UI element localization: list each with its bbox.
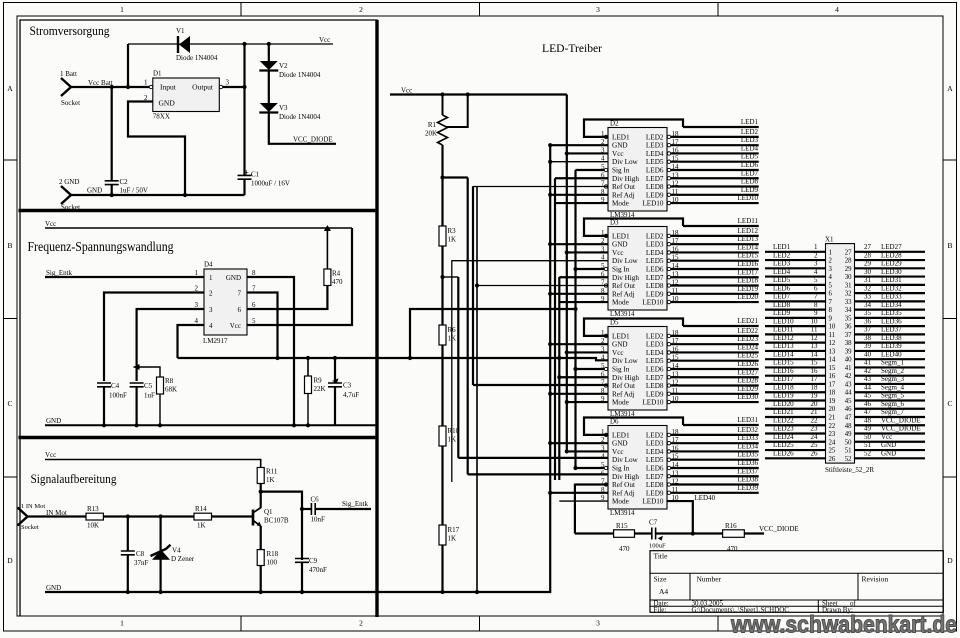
svg-text:41: 41: [864, 359, 872, 367]
svg-text:3: 3: [829, 266, 833, 273]
svg-text:Vcc: Vcc: [612, 349, 624, 357]
svg-text:5: 5: [814, 276, 818, 284]
svg-text:LED13: LED13: [773, 342, 794, 350]
diode V1 1N4004: [177, 36, 179, 53]
svg-text:38: 38: [845, 340, 852, 347]
wire R6 to R10: [441, 345, 443, 426]
wire C7 to R16: [656, 532, 723, 534]
svg-text:LED12: LED12: [773, 334, 794, 342]
svg-text:D2: D2: [610, 120, 619, 128]
X1 pin 46 wire: [855, 408, 926, 410]
resistor R9 22K: [307, 358, 309, 376]
svg-text:32: 32: [864, 284, 872, 292]
svg-text:LED10: LED10: [773, 317, 794, 325]
svg-text:2: 2: [814, 251, 818, 259]
wire Vcc rail section3: [45, 460, 261, 468]
svg-text:LED25: LED25: [737, 352, 758, 360]
svg-text:LED8: LED8: [741, 178, 759, 186]
svg-text:LED35: LED35: [881, 309, 902, 317]
capacitor C2 1uF/50V: [111, 87, 113, 181]
svg-text:Vcc: Vcc: [881, 433, 892, 441]
pin6 stub D3: [559, 276, 608, 278]
resistor R1 20K zigzag: [442, 95, 444, 116]
svg-text:2 GND: 2 GND: [59, 178, 79, 186]
pin2 GND stub D5: [550, 343, 608, 345]
svg-text:29: 29: [864, 260, 872, 268]
pin5 Sig stub D3: [576, 268, 605, 270]
svg-text:Vcc: Vcc: [230, 322, 241, 330]
X1 pin 23 wire: [765, 432, 826, 434]
svg-text:27: 27: [845, 249, 852, 256]
svg-text:GND: GND: [159, 99, 176, 108]
node junction D1 GND/GND: [183, 193, 187, 197]
svg-text:1: 1: [144, 79, 148, 87]
svg-text:4: 4: [601, 354, 605, 362]
wire R17 to GND rail: [441, 545, 443, 592]
svg-text:Ref Adj: Ref Adj: [612, 191, 635, 199]
svg-text:Vcc: Vcc: [612, 249, 624, 257]
svg-text:52: 52: [845, 456, 852, 463]
svg-text:51: 51: [864, 441, 872, 449]
X1 pin 52 wire: [855, 457, 926, 459]
svg-text:46: 46: [845, 406, 852, 413]
svg-text:LED5: LED5: [741, 153, 759, 161]
resistor R6 1K: [439, 325, 446, 345]
svg-text:3: 3: [596, 619, 600, 628]
svg-text:2: 2: [209, 290, 213, 298]
wire R16 to VCC_DIODE: [744, 532, 764, 534]
svg-text:D6: D6: [610, 418, 619, 426]
socket J3 1 IN Mot: [18, 508, 28, 526]
svg-text:68K: 68K: [165, 386, 177, 394]
svg-text:C9: C9: [309, 557, 318, 565]
diode V3 1N4004: [260, 103, 278, 112]
svg-text:8: 8: [814, 301, 818, 309]
svg-text:LED25: LED25: [773, 441, 794, 449]
svg-text:Mode: Mode: [612, 498, 629, 506]
svg-text:R17: R17: [448, 526, 460, 534]
svg-text:LED5: LED5: [646, 456, 664, 464]
svg-text:LED20: LED20: [737, 293, 758, 301]
svg-text:LED29: LED29: [737, 385, 758, 393]
pin3 Vcc stub D6: [567, 450, 608, 452]
svg-text:470: 470: [332, 278, 343, 286]
svg-text:LED37: LED37: [737, 467, 758, 475]
X1 pin 2 wire: [765, 259, 826, 261]
svg-text:27: 27: [864, 243, 872, 251]
svg-text:33: 33: [864, 293, 872, 301]
node junction collector branch: [259, 490, 263, 494]
X1 pin 26 wire: [765, 457, 826, 459]
X1 pin 7 wire: [765, 300, 826, 302]
svg-text:LED8: LED8: [646, 382, 664, 390]
svg-text:V4: V4: [172, 547, 181, 555]
svg-text:A: A: [947, 84, 953, 93]
svg-text:LED4: LED4: [646, 150, 664, 158]
svg-text:10: 10: [811, 317, 819, 325]
svg-text:Stromversorgung: Stromversorgung: [30, 24, 111, 38]
svg-text:LED22: LED22: [773, 416, 794, 424]
wire sig feed from section2: [410, 309, 576, 358]
svg-text:Segm_2: Segm_2: [881, 367, 904, 375]
wire V3 to VCC_DIODE: [269, 113, 336, 144]
svg-text:LED22: LED22: [737, 327, 758, 335]
svg-text:Sig In: Sig In: [612, 464, 630, 472]
svg-text:44: 44: [864, 383, 872, 391]
svg-text:V3: V3: [279, 104, 288, 112]
svg-text:LED2: LED2: [741, 128, 759, 136]
svg-text:52: 52: [864, 450, 872, 458]
svg-text:LED5: LED5: [646, 257, 664, 265]
svg-text:B: B: [7, 241, 12, 250]
wire GND rail section3: [45, 591, 377, 593]
svg-text:VCC_DIODE: VCC_DIODE: [293, 136, 333, 144]
svg-text:1K: 1K: [266, 476, 275, 484]
svg-text:Mode: Mode: [612, 399, 629, 407]
svg-text:Segm_6: Segm_6: [881, 400, 904, 408]
X1 pin 11 wire: [765, 333, 826, 335]
svg-text:LED2: LED2: [646, 431, 664, 439]
pin5 Sig stub D5: [576, 368, 605, 370]
svg-text:17: 17: [811, 375, 819, 383]
svg-text:LED3: LED3: [646, 241, 664, 249]
svg-text:3: 3: [195, 301, 199, 309]
svg-text:GND: GND: [881, 441, 896, 449]
svg-text:19: 19: [829, 398, 836, 405]
svg-text:47: 47: [864, 408, 872, 416]
svg-text:Diode 1N4004: Diode 1N4004: [279, 71, 321, 79]
X1 pin 32 wire: [855, 292, 926, 294]
svg-text:LED35: LED35: [737, 451, 758, 459]
wire Sig_Entk to pin1: [45, 276, 204, 278]
svg-text:D1: D1: [153, 70, 162, 78]
svg-text:25: 25: [811, 441, 819, 449]
svg-text:100uF: 100uF: [649, 543, 666, 550]
svg-text:10: 10: [829, 324, 836, 331]
svg-text:LED10: LED10: [642, 299, 664, 307]
svg-text:36: 36: [845, 324, 852, 331]
wire pin6 to R4: [247, 308, 327, 310]
X1 pin 27 wire: [855, 251, 926, 253]
svg-text:Output: Output: [192, 83, 214, 92]
svg-text:Div Low: Div Low: [612, 456, 639, 464]
svg-text:LED24: LED24: [773, 433, 794, 441]
capacitor C3 4.7uF: [334, 358, 336, 383]
svg-text:1: 1: [195, 269, 199, 277]
svg-text:4: 4: [835, 5, 839, 14]
svg-text:LED5: LED5: [646, 158, 664, 166]
svg-text:LED3: LED3: [741, 136, 759, 144]
X1 pin 24 wire: [765, 441, 826, 443]
svg-text:11: 11: [829, 332, 836, 339]
wire pin3 to C5: [137, 309, 204, 381]
svg-text:D3: D3: [610, 219, 619, 227]
svg-text:Div High: Div High: [612, 175, 639, 183]
pin8 Ref Adj stub D6: [550, 492, 608, 494]
resistor R11 1K: [257, 468, 264, 484]
svg-text:R9: R9: [314, 377, 323, 385]
chain tap to x458: [443, 276, 459, 278]
svg-text:37: 37: [845, 332, 852, 339]
pin9 Mode stub D6: [559, 500, 608, 502]
capacitor C5 1uF: [130, 383, 144, 387]
svg-text:470: 470: [727, 545, 738, 553]
pin6 stub D2: [555, 177, 608, 179]
svg-text:Vcc: Vcc: [612, 150, 624, 158]
pin8 Ref Adj stub D2: [550, 194, 608, 196]
svg-text:34: 34: [864, 301, 872, 309]
svg-text:LED2: LED2: [646, 133, 664, 141]
svg-text:LED15: LED15: [737, 252, 758, 260]
svg-text:C6: C6: [311, 496, 320, 504]
svg-text:51: 51: [845, 448, 852, 455]
svg-text:LED3: LED3: [773, 260, 791, 268]
svg-text:40: 40: [845, 357, 852, 364]
X1 pin 28 wire: [855, 259, 926, 261]
wire Vcc rail LED section: [390, 93, 567, 95]
svg-text:41: 41: [845, 365, 852, 372]
pin9 Mode stub D2: [555, 202, 608, 204]
svg-text:50: 50: [864, 433, 872, 441]
pin5 Sig stub D6: [576, 467, 605, 469]
svg-text:23: 23: [811, 425, 819, 433]
svg-text:3: 3: [596, 5, 600, 14]
svg-text:35: 35: [845, 315, 852, 322]
resistor R16 470: [723, 530, 745, 538]
X1 pin 16 wire: [765, 375, 826, 377]
svg-text:4: 4: [814, 268, 818, 276]
X1 pin 1 wire: [765, 251, 826, 253]
svg-text:Div High: Div High: [612, 374, 639, 382]
svg-text:LED36: LED36: [737, 459, 758, 467]
svg-text:24: 24: [829, 439, 836, 446]
svg-text:LED34: LED34: [737, 442, 758, 450]
svg-text:Vcc: Vcc: [319, 36, 330, 44]
svg-text:16: 16: [811, 367, 819, 375]
svg-text:1K: 1K: [448, 236, 457, 244]
svg-text:4: 4: [209, 322, 213, 330]
svg-text:LED1: LED1: [741, 118, 759, 126]
svg-text:1000uF / 16V: 1000uF / 16V: [251, 180, 290, 188]
svg-text:Ref Out: Ref Out: [612, 481, 635, 489]
svg-text:LED30: LED30: [881, 268, 902, 276]
svg-text:12: 12: [811, 334, 819, 342]
svg-text:R3: R3: [448, 227, 457, 235]
svg-text:30: 30: [864, 268, 872, 276]
svg-text:LED7: LED7: [773, 293, 791, 301]
svg-text:Vcc: Vcc: [401, 87, 412, 95]
svg-text:LED1: LED1: [773, 243, 791, 251]
divider bus vertical x477: [476, 186, 478, 592]
node junction output: [242, 85, 246, 89]
svg-text:33: 33: [845, 299, 852, 306]
svg-text:Div High: Div High: [612, 274, 639, 282]
svg-text:LED10: LED10: [642, 498, 664, 506]
svg-text:LED28: LED28: [881, 251, 902, 259]
pin circles D5: [604, 334, 607, 337]
svg-text:R16: R16: [725, 522, 737, 530]
wire pin2 to C4: [104, 293, 204, 382]
LED row wires D2: [683, 126, 759, 128]
svg-text:R8: R8: [165, 377, 174, 385]
pin2 GND stub D2: [550, 144, 608, 146]
diode V2 1N4004: [268, 44, 270, 61]
svg-text:3: 3: [226, 79, 230, 87]
X1 pin 10 wire: [765, 325, 826, 327]
svg-text:BC107B: BC107B: [264, 517, 289, 525]
svg-text:C: C: [947, 399, 952, 408]
X1 pin 51 wire: [855, 449, 926, 451]
svg-text:Stiftleiste_52_2R: Stiftleiste_52_2R: [825, 466, 874, 474]
svg-text:C1: C1: [251, 171, 260, 179]
section box Frequenz-Spannungswandlung: [19, 436, 379, 439]
svg-text:LED26: LED26: [737, 360, 758, 368]
svg-text:1uF: 1uF: [144, 392, 155, 400]
svg-text:GND: GND: [612, 241, 628, 249]
svg-text:LED2: LED2: [646, 332, 664, 340]
X1 pin 5 wire: [765, 284, 826, 286]
svg-text:39: 39: [845, 348, 852, 355]
node junction R1 top: [440, 92, 444, 96]
svg-text:D4: D4: [204, 261, 213, 269]
svg-text:Revision: Revision: [862, 575, 889, 584]
resistor R14 1K: [194, 513, 212, 520]
svg-text:21: 21: [811, 408, 819, 416]
svg-text:GND: GND: [226, 274, 241, 282]
wire GND rail section2: [45, 424, 377, 426]
transistor Q1 BC107B: [252, 510, 255, 526]
X1 pin 31 wire: [855, 284, 926, 286]
svg-text:LED26: LED26: [773, 450, 794, 458]
wire freq output line: [178, 357, 378, 359]
divider bus vertical x467: [467, 178, 469, 475]
svg-text:4,7uF: 4,7uF: [343, 391, 359, 399]
svg-text:LED13: LED13: [737, 235, 758, 243]
svg-text:LED19: LED19: [737, 285, 758, 293]
wire input to R13: [28, 515, 87, 517]
node junction pin7/output: [275, 356, 279, 360]
svg-text:LED32: LED32: [881, 284, 902, 292]
svg-text:Socket: Socket: [21, 524, 39, 531]
svg-text:49: 49: [845, 431, 852, 438]
X1 pin 38 wire: [855, 342, 926, 344]
svg-text:Ref Adj: Ref Adj: [612, 390, 635, 398]
svg-text:1: 1: [120, 5, 124, 14]
svg-text:LED11: LED11: [773, 326, 794, 334]
node junction C3/output: [333, 356, 337, 360]
svg-text:8: 8: [252, 269, 256, 277]
svg-text:Vcc: Vcc: [612, 448, 624, 456]
X1 pin 44 wire: [855, 391, 926, 393]
wire output vertical to C1: [243, 44, 245, 176]
svg-text:LED8: LED8: [646, 481, 664, 489]
svg-text:LED3: LED3: [646, 440, 664, 448]
svg-text:Segm_4: Segm_4: [881, 383, 904, 391]
svg-text:Mode: Mode: [612, 200, 629, 208]
svg-text:GND: GND: [46, 417, 61, 425]
socket J2 2 GND: [61, 186, 71, 204]
X1 pin 29 wire: [855, 267, 926, 269]
svg-text:LED5: LED5: [646, 357, 664, 365]
svg-text:Sig_Entk: Sig_Entk: [342, 500, 369, 508]
svg-text:20K: 20K: [425, 130, 437, 138]
svg-text:D Zener: D Zener: [171, 555, 195, 563]
svg-text:LED7: LED7: [741, 169, 759, 177]
svg-text:Div Low: Div Low: [612, 357, 639, 365]
svg-text:30: 30: [845, 274, 852, 281]
pin4 stub D3: [452, 260, 608, 262]
svg-text:36: 36: [864, 317, 872, 325]
svg-text:LED40: LED40: [695, 494, 716, 502]
svg-text:6: 6: [252, 301, 256, 309]
pin9 Mode stub D5: [567, 401, 608, 403]
svg-text:LED4: LED4: [741, 144, 759, 152]
svg-text:C4: C4: [111, 382, 120, 390]
zener diode V4: [160, 517, 162, 553]
svg-text:LM3914: LM3914: [610, 509, 635, 517]
svg-text:19: 19: [811, 392, 819, 400]
wire R1 parallel loop: [446, 95, 468, 128]
pin6 stub D5: [559, 376, 608, 378]
svg-text:Diode 1N4004: Diode 1N4004: [176, 54, 218, 62]
svg-text:5: 5: [829, 282, 833, 289]
svg-text:LED4: LED4: [646, 349, 664, 357]
svg-text:LED8: LED8: [773, 301, 791, 309]
node junction C8: [126, 514, 130, 518]
wire V2 to V3: [268, 71, 270, 103]
svg-text:C: C: [7, 399, 12, 408]
svg-text:LED33: LED33: [881, 293, 902, 301]
svg-text:LED-Treiber: LED-Treiber: [542, 41, 602, 55]
svg-text:LED38: LED38: [737, 476, 758, 484]
pin3 Vcc stub D2: [567, 152, 608, 154]
resistor R13 10K: [86, 513, 103, 520]
svg-text:2: 2: [359, 619, 363, 628]
junction C9 GND: [300, 590, 304, 594]
svg-text:42: 42: [864, 367, 872, 375]
svg-text:34: 34: [845, 307, 852, 314]
X1 pin 36 wire: [855, 325, 926, 327]
svg-text:LED3: LED3: [646, 341, 664, 349]
LED row wires D5: [683, 325, 759, 327]
svg-text:C7: C7: [649, 519, 658, 527]
svg-text:D5: D5: [610, 319, 619, 327]
capacitor C8 37nF: [127, 517, 129, 552]
svg-text:39: 39: [864, 342, 872, 350]
wire LED40 drop: [667, 501, 693, 533]
X1 pin 3 wire: [765, 267, 826, 269]
wire pin8 to GND: [247, 277, 294, 425]
svg-text:45: 45: [864, 392, 872, 400]
svg-text:2: 2: [359, 5, 363, 14]
svg-text:R15: R15: [616, 522, 628, 530]
svg-text:Div High: Div High: [612, 473, 639, 481]
pin8 Ref Adj stub D3: [550, 293, 608, 295]
wire V1 line to Vcc: [128, 43, 333, 45]
svg-text:Input: Input: [160, 83, 177, 92]
X1 pin 19 wire: [765, 399, 826, 401]
svg-text:LED24: LED24: [737, 343, 758, 351]
svg-text:R4: R4: [332, 270, 341, 278]
svg-text:Socket: Socket: [61, 204, 80, 212]
svg-text:LED9: LED9: [773, 309, 791, 317]
svg-text:LED9: LED9: [646, 489, 664, 497]
svg-text:1uF / 50V: 1uF / 50V: [120, 187, 148, 195]
wire R13 to R14: [103, 515, 194, 517]
svg-text:LED21: LED21: [737, 317, 758, 325]
node junction chain tap: [440, 175, 444, 179]
wire GND rail section 1: [71, 194, 245, 196]
